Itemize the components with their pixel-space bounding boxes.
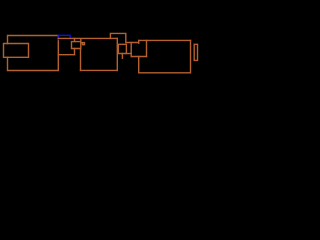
component U1 outer block (left) bbox=[8, 36, 59, 71]
pin U5 bottom bbox=[121, 54, 123, 59]
wire top net to right block bbox=[139, 39, 191, 41]
wire to right block left edge bbox=[131, 56, 146, 58]
tab T1 bbox=[83, 43, 85, 45]
pin U4 top-right stub bbox=[80, 39, 82, 41]
wire W1 vertical drop bbox=[116, 38, 118, 70]
wire bottom return net bbox=[81, 69, 118, 71]
highlighted blue net bbox=[58, 35, 70, 39]
tab stub on U4 bbox=[81, 42, 83, 44]
component U4 small block bbox=[72, 42, 81, 49]
pin U4 top bbox=[74, 38, 76, 41]
component U8 tall block (far right) bbox=[194, 44, 197, 60]
wire bump over U5 bbox=[110, 33, 138, 42]
component U5 block (middle) bbox=[118, 44, 126, 53]
wire W1 horizontal net bbox=[58, 37, 117, 39]
component U3 open box (middle-left) bottom edge bbox=[58, 54, 74, 56]
wire step up bbox=[138, 40, 140, 43]
wire branch down bbox=[130, 43, 132, 57]
pin U5 left bbox=[117, 46, 118, 48]
component U7 right large block bbox=[139, 40, 191, 72]
pin U5 right bbox=[126, 53, 131, 55]
pin U4 bottom-right bbox=[80, 49, 82, 71]
pin U4 bottom-left bbox=[74, 49, 76, 55]
component U2 inner block (left) bbox=[4, 44, 29, 58]
component U6 divider (vertical inside right block) bbox=[146, 40, 148, 56]
